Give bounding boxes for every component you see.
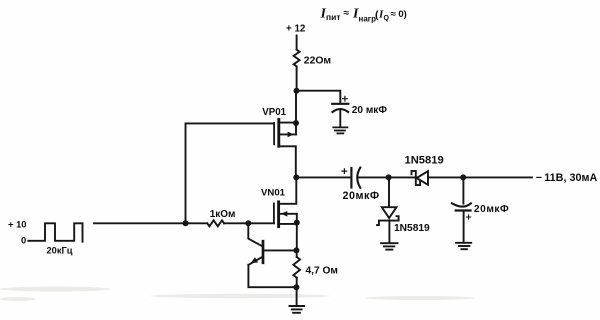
diode D2 1N5819 (shunt Schottky): [377, 207, 399, 225]
wire node E to ground: [296, 287, 298, 305]
node B (output of totem pole): [293, 174, 299, 180]
diode D1 1N5819 (series Schottky): [412, 171, 429, 185]
svg-text:20кГц: 20кГц: [47, 246, 73, 256]
scan smudge artifacts (decorative): [0, 287, 475, 302]
wire node G to output terminal: [463, 176, 532, 178]
svg-text:22Ом: 22Ом: [304, 56, 331, 67]
transistor VN01 (N-channel MOSFET): [274, 177, 297, 226]
transistor Q1 (NPN current-limit): [249, 241, 297, 265]
formula I_pit = I_nagr (I_Q = 0): [320, 7, 407, 24]
node F (pump node): [386, 174, 392, 180]
svg-text:VP01: VP01: [262, 107, 286, 118]
wire gate of VP01 to input node: [186, 123, 275, 223]
node: input/gate tie point: [183, 220, 189, 226]
wire node F down to diode D2: [388, 177, 390, 207]
svg-text:20мкФ: 20мкФ: [474, 204, 509, 215]
svg-text:1N5819: 1N5819: [405, 154, 444, 166]
capacitor C1 20 мкФ (supply filter): [332, 96, 348, 126]
svg-text:+ 10: + 10: [8, 218, 27, 229]
ground (below C1): [333, 127, 347, 133]
transistor VP01 (P-channel MOSFET): [274, 119, 296, 177]
resistor R3 4,7 Ом (vertical zigzag): [293, 250, 300, 287]
wire node A to capacitor C1: [297, 91, 341, 103]
wire node C down to Q1 collector: [248, 223, 263, 246]
wire node G down to output capacitor: [462, 177, 464, 203]
wire R2 to gate node: [224, 222, 274, 224]
wire C2 to node F: [358, 176, 388, 178]
input square waveform: [28, 223, 82, 241]
node A (supply node): [294, 88, 300, 94]
node: VN01 source/body junction: [294, 220, 300, 226]
wire D2 to ground: [388, 221, 390, 243]
svg-text:4,7 Ом: 4,7 Ом: [306, 265, 338, 276]
wire node B to coupling capacitor: [296, 176, 350, 178]
capacitor C2 20 мкФ (coupling, polarized): [342, 168, 360, 188]
ground (below C3): [456, 243, 471, 249]
node C (gate of VN01): [245, 220, 251, 226]
svg-text:≈: ≈: [344, 8, 350, 19]
svg-text:0: 0: [21, 235, 26, 246]
svg-text:1кОм: 1кОм: [210, 209, 236, 220]
svg-text:Q: Q: [384, 15, 390, 22]
svg-text:VN01: VN01: [261, 187, 286, 198]
svg-text:пит: пит: [326, 12, 341, 22]
wire R1 to node A: [296, 66, 298, 90]
svg-text:≈ 0): ≈ 0): [391, 9, 407, 20]
wire VP01 source to node A: [295, 91, 297, 123]
node G (output node): [460, 174, 466, 180]
wire node F to diode D1: [389, 176, 416, 178]
wire VN01 source down to base node: [296, 223, 298, 251]
svg-text:20мкФ: 20мкФ: [343, 190, 380, 202]
ground (below D2): [381, 243, 397, 249]
wire input rail: [94, 222, 207, 224]
wire +12 to R1: [296, 36, 298, 50]
node D (sense node, base of Q1): [293, 247, 299, 253]
node E (emitter/ground node): [293, 284, 299, 290]
resistor R1 22 Ом (vertical zigzag): [294, 50, 300, 67]
wire Q1 emitter to ground rail: [248, 265, 296, 287]
svg-text:1N5819: 1N5819: [394, 223, 430, 234]
resistor R2 1кОм (horizontal zigzag): [207, 220, 224, 226]
wire D1 to node G: [428, 176, 463, 178]
node: VP01 source/body junction: [293, 120, 299, 126]
svg-text:− 11В, 30мА: − 11В, 30мА: [536, 172, 598, 184]
svg-text:20 мкФ: 20 мкФ: [352, 105, 388, 116]
ground (main, below R3): [290, 306, 305, 313]
svg-text:нагр: нагр: [359, 15, 377, 24]
capacitor C3 20 мкФ (output filter, polarized): [452, 203, 471, 241]
svg-text:+ 12: + 12: [286, 23, 306, 34]
